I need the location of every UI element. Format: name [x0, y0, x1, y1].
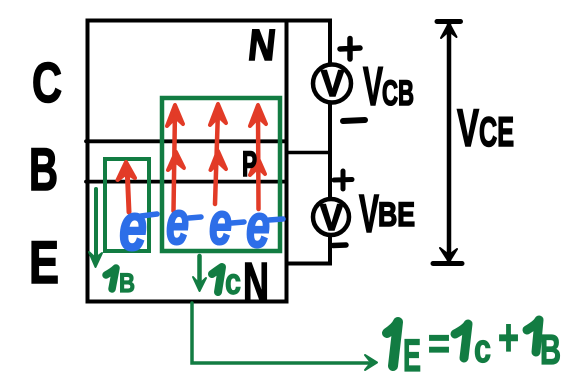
svg-text:CE: CE: [479, 108, 514, 155]
svg-text:c: c: [474, 327, 491, 371]
svg-text:V: V: [359, 184, 379, 244]
svg-text:=: =: [428, 319, 450, 368]
svg-text:BE: BE: [378, 196, 415, 234]
svg-text:E: E: [403, 330, 421, 381]
svg-text:e: e: [119, 189, 147, 265]
svg-text:B: B: [119, 268, 135, 298]
svg-text:V: V: [457, 99, 479, 158]
svg-text:B: B: [540, 326, 561, 373]
svg-text:P: P: [242, 145, 257, 184]
svg-text:c: c: [225, 261, 241, 302]
svg-text:V: V: [363, 55, 383, 117]
svg-text:B: B: [29, 136, 58, 203]
svg-text:E: E: [29, 229, 59, 296]
svg-text:V: V: [321, 63, 344, 104]
svg-text:N: N: [246, 21, 278, 70]
svg-text:V: V: [320, 197, 343, 238]
svg-text:e: e: [246, 192, 270, 261]
svg-text:+: +: [498, 309, 519, 367]
svg-text:e: e: [166, 189, 189, 258]
svg-text:e: e: [209, 190, 232, 257]
svg-text:C: C: [32, 51, 62, 115]
svg-text:CB: CB: [382, 74, 414, 113]
